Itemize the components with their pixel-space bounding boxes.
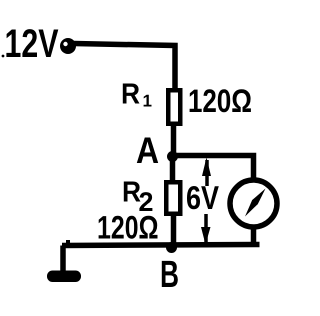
voltage arrow 6V upper xyxy=(202,158,211,187)
wire: R1 to node A xyxy=(171,124,177,153)
wire: bottom wire to ground xyxy=(63,240,68,273)
label A xyxy=(137,138,158,164)
label 12V xyxy=(6,29,58,57)
wire: voltmeter to bottom wire xyxy=(251,226,257,246)
value 120 ohm R2 xyxy=(99,216,158,239)
wire: node A down to R2 xyxy=(170,157,176,183)
voltage arrow 6V lower xyxy=(201,214,211,245)
label B xyxy=(162,261,178,287)
wire bottom xyxy=(62,245,260,246)
label R1 xyxy=(123,84,152,107)
ground xyxy=(47,271,81,283)
wire: node A to voltmeter top xyxy=(172,156,254,181)
label 6V xyxy=(187,186,219,209)
terminal xyxy=(60,38,76,54)
node A xyxy=(167,151,178,162)
voltmeter xyxy=(230,180,277,227)
resistor R2 xyxy=(166,182,180,214)
wire: R2 to node B xyxy=(171,213,177,245)
wire top: terminal to R1 xyxy=(74,44,175,89)
label R2 xyxy=(124,182,153,212)
node B xyxy=(166,242,177,253)
resistor R1 xyxy=(168,90,180,124)
value 120 ohm R1 xyxy=(190,89,251,112)
